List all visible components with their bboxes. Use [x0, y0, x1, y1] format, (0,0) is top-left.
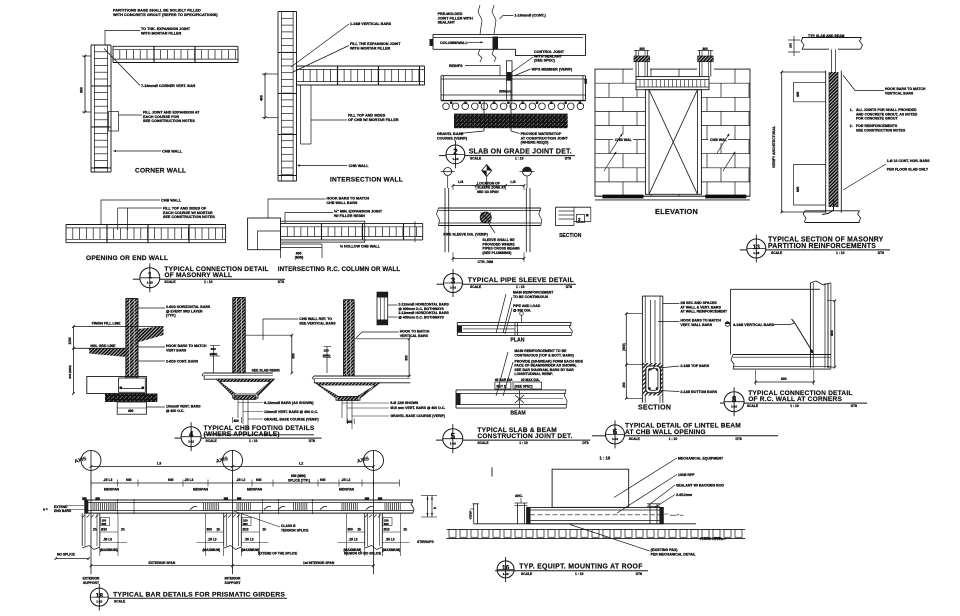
svg-text:1 : 10: 1 : 10	[575, 572, 584, 576]
svg-text:1-10: 1-10	[188, 439, 194, 443]
svg-text:Ø10 mm VERT. BARS @ 400 O.C.: Ø10 mm VERT. BARS @ 400 O.C.	[390, 406, 445, 410]
svg-text:FLOOR LEVEL: FLOOR LEVEL	[700, 537, 723, 541]
svg-text:600: 600	[405, 355, 409, 361]
girders: second dim row span1	[91, 482, 400, 484]
svg-text:2: 2	[453, 148, 458, 157]
girders: right end break and h dim	[411, 500, 414, 513]
girders: left end cap	[84, 500, 88, 513]
svg-text:MECHANICAL EQUIPMENT: MECHANICAL EQUIPMENT	[678, 456, 724, 460]
pipe sleeve: top symbols	[447, 176, 449, 188]
svg-text:VERT. WALL BARS: VERT. WALL BARS	[680, 323, 712, 327]
slab on grade: joint hatch in band	[493, 37, 499, 50]
svg-text:DT8: DT8	[566, 285, 572, 289]
svg-text:2-12Ø BOTTOM BARS: 2-12Ø BOTTOM BARS	[680, 390, 717, 394]
svg-text:1-10: 1-10	[450, 441, 456, 445]
footing 1: footing block	[87, 377, 147, 394]
partition section: title	[747, 239, 766, 258]
svg-text:VERT BARS: VERT BARS	[166, 348, 187, 352]
svg-text:1-10: 1-10	[452, 157, 458, 161]
intersection wall: left dimension	[264, 74, 266, 118]
svg-text:SUPPORT: SUPPORT	[83, 581, 99, 585]
svg-text:CHB WALL BARS: CHB WALL BARS	[327, 201, 358, 205]
slab&beam: small flag	[521, 315, 523, 322]
svg-text:150: 150	[789, 43, 793, 48]
svg-text:1-10: 1-10	[753, 251, 759, 255]
svg-text:KEY D.: KEY D.	[497, 385, 508, 389]
svg-text:600: 600	[207, 528, 213, 532]
svg-text:DT8: DT8	[278, 280, 284, 284]
svg-text:DT8: DT8	[565, 157, 571, 161]
elevation: chb wall annotation right pier	[708, 135, 728, 144]
footing 3: leaders below	[341, 401, 343, 419]
svg-text:OF CHB W/ MORTAR FILLER: OF CHB W/ MORTAR FILLER	[348, 118, 399, 122]
svg-text:DT8: DT8	[735, 437, 741, 441]
svg-text:VERTICAL BARS: VERTICAL BARS	[400, 334, 429, 338]
svg-text:400: 400	[260, 95, 264, 101]
svg-text:4: 4	[189, 430, 194, 439]
girders: support dim clusters	[99, 516, 101, 556]
slab on grade: title	[446, 145, 465, 164]
svg-text:6: 6	[613, 428, 618, 437]
svg-text:600: 600	[384, 522, 389, 526]
lintel section: left dim	[625, 314, 627, 399]
svg-text:1st INTERIOR SPAN: 1st INTERIOR SPAN	[303, 561, 335, 565]
svg-text:SCALE: SCALE	[114, 600, 126, 604]
rc corner: right dim	[834, 301, 836, 367]
footing 1: left dim line	[72, 327, 74, 394]
svg-text:L3: L3	[157, 462, 161, 466]
svg-text:1 : 10: 1 : 10	[600, 456, 611, 461]
lintel section: stirrup zone	[643, 363, 662, 396]
svg-text:VERTICAL BARS: VERTICAL BARS	[885, 91, 914, 95]
svg-text:3: 3	[451, 276, 456, 285]
svg-text:1 : 10: 1 : 10	[519, 441, 528, 445]
footing 3: right dim	[408, 339, 410, 376]
svg-text:(MAXIMUM): (MAXIMUM)	[383, 548, 401, 552]
svg-text:GRAVEL BASE COURSE (VERIF): GRAVEL BASE COURSE (VERIF)	[264, 418, 319, 422]
slab on grade: column/wall band	[433, 33, 586, 35]
svg-text:SPLICE (TYP.): SPLICE (TYP.)	[288, 479, 310, 483]
svg-text:MIDSPAN: MIDSPAN	[104, 488, 120, 492]
svg-text:@ 400mm O.C. BOTHWAYS: @ 400mm O.C. BOTHWAYS	[398, 315, 444, 319]
svg-text:.25 L2: .25 L2	[341, 478, 351, 482]
corner wall: dimension line left	[84, 56, 86, 112]
svg-text:SEALANT W/ BACKING ROD: SEALANT W/ BACKING ROD	[676, 484, 724, 488]
svg-text:4-16Ø VERTICAL BARS: 4-16Ø VERTICAL BARS	[733, 323, 775, 327]
svg-text:1 : 10: 1 : 10	[249, 439, 258, 443]
svg-text:2h: 2h	[404, 528, 408, 532]
svg-text:SCALE: SCALE	[164, 280, 176, 284]
footing 3: left min dim	[326, 347, 328, 373]
svg-text:OPENING OR END WALL: OPENING OR END WALL	[86, 255, 168, 262]
svg-text:PARTITION REINFORCEMENTS: PARTITION REINFORCEMENTS	[768, 243, 876, 250]
svg-text:(600): (600)	[622, 343, 626, 350]
detail 4 title: typical chb footing details	[181, 427, 201, 447]
svg-text:600: 600	[348, 528, 354, 532]
svg-text:SECTION: SECTION	[559, 233, 582, 239]
slab&beam: plan bar	[457, 321, 571, 323]
svg-text:SCALE: SCALE	[747, 404, 759, 408]
svg-text:CHB WALL: CHB WALL	[349, 164, 370, 168]
svg-text:600: 600	[292, 353, 296, 359]
svg-text:200: 200	[622, 382, 626, 388]
svg-text:SCALE: SCALE	[629, 437, 641, 441]
svg-text:2h: 2h	[263, 528, 267, 532]
equipt mount: roof slab and ribs	[474, 523, 696, 525]
svg-text:CTR. DIM: CTR. DIM	[478, 260, 494, 264]
svg-text:(MIN): (MIN)	[323, 354, 331, 358]
svg-text:CORNER WALL: CORNER WALL	[135, 168, 186, 175]
svg-text:REINFS: REINFS	[449, 64, 463, 68]
footing 2: CHB wall hatched	[233, 298, 246, 374]
svg-text:2.: 2.	[850, 124, 853, 128]
girders: bar hook ticks	[190, 507, 194, 510]
detail 5 title: typical slab & beam construction joint	[443, 429, 463, 449]
svg-text:VERIFY ARCHITECTURAL: VERIFY ARCHITECTURAL	[772, 126, 776, 168]
svg-text:a =: a =	[43, 508, 48, 512]
svg-text:Ø10: Ø10	[384, 528, 390, 532]
svg-text:600: 600	[168, 478, 174, 482]
rc corner: interior square outline	[731, 288, 821, 290]
partition section: bottom slab band	[805, 210, 860, 212]
svg-text:800: 800	[796, 186, 800, 192]
corner wall: horizontal CHB wall ladder	[113, 45, 238, 47]
svg-text:1-10: 1-10	[450, 286, 456, 290]
svg-text:NO SPLICE: NO SPLICE	[57, 553, 76, 557]
pipe sleeve: beam band	[439, 207, 541, 209]
svg-text:PIPE SLEEVE DIA. (VERIF): PIPE SLEEVE DIA. (VERIF)	[443, 233, 487, 237]
svg-text:MID 1/3 SPAN: MID 1/3 SPAN	[477, 190, 499, 194]
svg-text:2-Ø10 CONT. BARS: 2-Ø10 CONT. BARS	[166, 360, 199, 364]
pipe sleeve: leader and note block	[488, 222, 495, 233]
svg-text:1200: 1200	[68, 337, 72, 344]
svg-text:L/3: L/3	[510, 180, 515, 184]
svg-text:13: 13	[753, 244, 761, 251]
svg-text:600: 600	[320, 478, 326, 482]
svg-text:Ø10: Ø10	[101, 528, 107, 532]
intersecting rc column: wall end break	[414, 221, 416, 242]
svg-text:SEE CONSTRUCTION NOTES: SEE CONSTRUCTION NOTES	[856, 128, 906, 132]
slab on grade: compacted fill crosshatch	[454, 114, 568, 129]
svg-text:SECTION: SECTION	[638, 405, 671, 412]
svg-text:1 : 10: 1 : 10	[515, 157, 524, 161]
svg-text:(SEE PLUMBING): (SEE PLUMBING)	[482, 251, 511, 255]
svg-text:1 : 10: 1 : 10	[516, 285, 525, 289]
equipt mount: left wall bracket	[473, 503, 479, 505]
svg-text:COURSE (VERIF): COURSE (VERIF)	[437, 136, 468, 140]
girders: axis circles and lines	[81, 450, 101, 470]
svg-text:TO BE CONTINUOUS: TO BE CONTINUOUS	[513, 295, 549, 299]
detail 6 title: lintel beam at chb wall opening	[606, 425, 625, 444]
footing 2: trapezoid footing	[216, 379, 274, 398]
svg-text:SCALE: SCALE	[771, 251, 783, 255]
svg-text:COLUMN/WALL: COLUMN/WALL	[440, 41, 468, 45]
svg-text:NGL GRD LINE: NGL GRD LINE	[90, 344, 116, 348]
intersection wall: horizontal CHB ladder	[297, 65, 425, 67]
intersection wall: vertical CHB ladder	[277, 12, 279, 182]
svg-text:1 : 10: 1 : 10	[790, 404, 799, 408]
svg-text:400: 400	[347, 420, 353, 424]
svg-text:600 (MIN): 600 (MIN)	[291, 474, 306, 478]
svg-text:MIDSPAN: MIDSPAN	[193, 488, 209, 492]
svg-text:(WHERE REQD): (WHERE REQD)	[521, 141, 550, 145]
svg-text:8: 8	[732, 395, 737, 404]
partition section: top left small dim	[788, 39, 800, 41]
svg-text:2h: 2h	[358, 528, 362, 532]
intersecting rc column: column rectangle	[248, 218, 281, 250]
svg-text:800 (MIN): 800 (MIN)	[68, 365, 72, 378]
svg-text:WITH CONCRETE GROUT (REFER TO: WITH CONCRETE GROUT (REFER TO SPECIFICAT…	[113, 12, 218, 17]
svg-text:PLAN: PLAN	[510, 338, 524, 344]
corner wall: vertical CHB wall ladder	[90, 45, 92, 172]
svg-text:1-10: 1-10	[147, 280, 153, 284]
svg-text:Ø10: Ø10	[243, 528, 249, 532]
partition section: wall neck above	[831, 49, 833, 72]
svg-text:20 MAX DIA.: 20 MAX DIA.	[521, 378, 540, 382]
equipt mount: pad band	[527, 507, 664, 523]
svg-text:GRAVEL BASE COURSE (VERIF): GRAVEL BASE COURSE (VERIF)	[390, 414, 445, 418]
lintel section: wall outline	[641, 296, 643, 403]
svg-text:OF R.C. WALL AT CORNERS: OF R.C. WALL AT CORNERS	[748, 396, 842, 403]
opening/end wall: horizontal CHB ladder	[66, 224, 226, 226]
svg-text:1 : 10: 1 : 10	[836, 251, 845, 255]
svg-text:(SEE SPEC): (SEE SPEC)	[515, 385, 533, 389]
svg-text:@ 400 O.C.: @ 400 O.C.	[166, 409, 184, 413]
svg-text:300: 300	[211, 347, 216, 351]
svg-text:h: h	[433, 507, 437, 509]
svg-text:1.: 1.	[850, 108, 853, 112]
svg-text:CONSTRUCTION JOINT DET.: CONSTRUCTION JOINT DET.	[477, 433, 572, 440]
slab on grade: gravel circles	[443, 103, 450, 110]
svg-text:.25 L3: .25 L3	[208, 538, 217, 542]
svg-text:150: 150	[584, 78, 588, 84]
rc corner: vertical wall (right)	[809, 283, 811, 368]
svg-text:800: 800	[80, 87, 84, 93]
elevation: left post	[635, 50, 637, 76]
elevation: opening frame and X brace	[645, 90, 701, 195]
footing 1: pedestal below	[117, 402, 146, 414]
svg-text:7-16mmØ CORNER VERT. BAR: 7-16mmØ CORNER VERT. BAR	[141, 84, 196, 88]
svg-text:CHB WALL: CHB WALL	[161, 198, 182, 202]
girders: top span dim line	[91, 466, 374, 468]
partition section: upper bracket dim	[793, 81, 825, 83]
girders: stirrup hatch bands	[92, 503, 94, 511]
svg-text:ELEVATION: ELEVATION	[655, 207, 698, 216]
svg-text:600: 600	[126, 478, 132, 482]
footing 2: dim 400 below	[232, 417, 234, 423]
girders: sparse stirrups and crossing lines	[117, 499, 119, 514]
svg-text:FOR CONCRETE GROUT: FOR CONCRETE GROUT	[856, 117, 898, 121]
elevation: right post	[699, 50, 701, 76]
svg-text:WITH MORTAR FILLER: WITH MORTAR FILLER	[350, 46, 391, 50]
equipt mount: equipment box	[552, 469, 629, 507]
elevation: base lines and footing strips	[595, 195, 750, 197]
elevation: opening white-out	[645, 90, 701, 195]
svg-text:½ HOLLOW CHB WALL: ½ HOLLOW CHB WALL	[340, 244, 381, 248]
svg-text:100Ø RPP: 100Ø RPP	[678, 473, 695, 477]
svg-text:.50 L3: .50 L3	[103, 538, 112, 542]
footing 1: CHB wall hatched	[126, 299, 138, 378]
svg-text:STIRRUPS: STIRRUPS	[417, 540, 434, 544]
partition section: lower bracket dim	[793, 164, 825, 166]
svg-text:WPG MEMBER (VERIF): WPG MEMBER (VERIF)	[532, 67, 573, 71]
svg-text:L/4: L/4	[458, 180, 463, 184]
svg-text:1-Ø 10 CONT. HOR. BARS: 1-Ø 10 CONT. HOR. BARS	[887, 159, 930, 163]
partition section: bottom hook	[822, 200, 834, 215]
svg-text:.25 L3: .25 L3	[103, 478, 113, 482]
equipt mount: ground line	[446, 537, 745, 539]
svg-text:2-Ø12mm: 2-Ø12mm	[676, 493, 692, 497]
slab on grade: joint break lines	[478, 5, 482, 34]
svg-text:.50 L3: .50 L3	[386, 538, 395, 542]
svg-text:SCALE: SCALE	[477, 441, 489, 445]
svg-text:TENSION SPLICE: TENSION SPLICE	[281, 528, 309, 532]
footing 1: left fill hatch	[89, 349, 126, 358]
svg-text:SEE CONSTRUCTION NOTES: SEE CONSTRUCTION NOTES	[143, 119, 195, 123]
girders: girder band	[84, 499, 413, 501]
svg-text:.25 L2: .25 L2	[236, 478, 246, 482]
svg-text:12mmØ VERT. BARS @ 400 O.C.: 12mmØ VERT. BARS @ 400 O.C.	[264, 410, 318, 414]
svg-text:8-12mmØ BARS (AS SHOWN): 8-12mmØ BARS (AS SHOWN)	[264, 401, 313, 405]
svg-text:OF MASONRY WALL: OF MASONRY WALL	[164, 272, 232, 279]
svg-text:(MIN): (MIN)	[210, 352, 218, 356]
footing 2: left min dim	[213, 345, 215, 373]
equipt mount: anchor post left	[517, 503, 519, 524]
svg-text:1-16Ø VERTICAL BARS: 1-16Ø VERTICAL BARS	[350, 22, 392, 26]
svg-text:MIDSPAN: MIDSPAN	[247, 488, 263, 492]
elevation: post whiteouts	[633, 50, 650, 76]
intersecting rc column: bottom band	[281, 243, 323, 245]
svg-text:PER MECHANICAL DETAIL: PER MECHANICAL DETAIL	[651, 552, 697, 556]
svg-text:SEE CONSTRUCTION NOTES: SEE CONSTRUCTION NOTES	[163, 215, 215, 219]
pipe sleeve: bottom dim	[453, 257, 524, 259]
svg-text:1-16mmØ (CONT.): 1-16mmØ (CONT.)	[514, 14, 546, 18]
svg-text:SEALANT: SEALANT	[438, 21, 456, 25]
svg-text:TYPICAL BAR DETAILS FOR PRISMA: TYPICAL BAR DETAILS FOR PRISMATIC GIRDER…	[113, 591, 285, 598]
svg-text:1-13: 1-13	[96, 600, 102, 604]
svg-text:2h: 2h	[121, 528, 125, 532]
svg-text:W/ FILLER RESIN: W/ FILLER RESIN	[334, 214, 365, 218]
svg-text:600: 600	[102, 522, 107, 526]
equipt mount: right post	[649, 504, 651, 524]
svg-text:(SEE SPEC): (SEE SPEC)	[534, 59, 556, 63]
corner wall: bracket to blocks	[109, 112, 119, 132]
svg-text:800: 800	[830, 330, 834, 336]
slab&beam: beam bar	[456, 389, 566, 391]
svg-text:400: 400	[128, 409, 134, 413]
svg-text:SCALE: SCALE	[521, 572, 533, 576]
svg-text:.25 L3: .25 L3	[349, 538, 358, 542]
detail 8 title: rc wall at corners	[724, 392, 744, 412]
footing 3: trapezoid footing	[315, 383, 379, 400]
svg-text:(MAXIMUM): (MAXIMUM)	[203, 548, 221, 552]
svg-text:(TYP.): (TYP.)	[166, 314, 176, 318]
svg-text:DT8: DT8	[636, 572, 642, 576]
svg-text:FINISH FILL LINE: FINISH FILL LINE	[92, 321, 121, 325]
detail 1 title: typical connection detail of masonry wall	[140, 268, 160, 288]
footing 3: plan piece top right	[377, 292, 388, 298]
detail 16 title: typ equipt mounting at roof	[497, 561, 514, 578]
svg-text:1-10: 1-10	[503, 572, 509, 576]
rc corner: horizontal wall (bottom)	[733, 354, 831, 356]
footing 1: right fill hatch wedge	[138, 326, 164, 342]
opening/end wall: bracket leaders	[117, 208, 119, 230]
svg-text:TYPICAL PIPE SLEEVE DETAIL: TYPICAL PIPE SLEEVE DETAIL	[468, 277, 574, 284]
footing 2: slab band	[204, 372, 273, 374]
svg-text:1-10: 1-10	[612, 437, 618, 441]
partition section: wall with reinforcement hatch	[825, 71, 827, 213]
svg-text:800: 800	[781, 377, 787, 381]
elevation: brick wall field	[595, 82, 750, 84]
footing 3: dim 400 below	[347, 419, 349, 425]
detail 18 title: typical bar details for prismatic girders	[90, 588, 108, 606]
svg-text:SEE VERTICAL BARS: SEE VERTICAL BARS	[299, 321, 336, 325]
svg-text:BEAM: BEAM	[510, 411, 525, 417]
rc corner: bottom dim	[756, 381, 814, 383]
svg-text:400: 400	[234, 419, 240, 423]
svg-text:SCALE: SCALE	[206, 439, 218, 443]
svg-text:L2: L2	[299, 462, 303, 466]
svg-text:DT8: DT8	[878, 251, 884, 255]
svg-text:SUPPORT: SUPPORT	[225, 581, 241, 585]
svg-text:600: 600	[243, 522, 248, 526]
svg-text:.50 L3: .50 L3	[245, 538, 254, 542]
svg-text:18: 18	[96, 592, 104, 599]
elevation: chb wall annotation left pier	[613, 135, 633, 144]
svg-text:DT8: DT8	[582, 441, 588, 445]
svg-text:400: 400	[796, 91, 800, 97]
svg-text:INTERSECTING R.C. COLUMN OR WA: INTERSECTING R.C. COLUMN OR WALL	[278, 266, 401, 273]
pipe sleeve: wall verticals	[444, 188, 446, 252]
svg-text:1-10: 1-10	[731, 404, 737, 408]
elevation: lintel white-out	[636, 77, 709, 90]
svg-text:2-16Ø TOP BARS: 2-16Ø TOP BARS	[680, 364, 709, 368]
footing 3: CHB wall hatched	[344, 300, 355, 376]
pipe sleeve: top dimension line	[453, 185, 524, 187]
svg-text:DT8: DT8	[309, 439, 315, 443]
girders: columns below	[81, 513, 83, 546]
svg-text:VERIF: VERIF	[469, 510, 473, 519]
svg-text:5: 5	[451, 432, 456, 441]
svg-text:MIDSPAN: MIDSPAN	[339, 488, 355, 492]
svg-text:2h: 2h	[217, 528, 221, 532]
partition section: left dim line	[781, 72, 783, 212]
footing 2: leader lines below	[237, 400, 239, 419]
svg-text:AT WALL REINFORCEMENT: AT WALL REINFORCEMENT	[680, 310, 728, 314]
svg-text:SCALE: SCALE	[470, 157, 482, 161]
footing 2: right dim	[291, 335, 293, 373]
slab on grade: control joint element	[506, 61, 512, 81]
svg-text:EXTEND OF THE SPLICE: EXTEND OF THE SPLICE	[258, 552, 298, 556]
svg-text:1 : 10: 1 : 10	[204, 280, 213, 284]
footing 1: soil hatch under footing	[105, 394, 157, 403]
svg-text:AT CHB WALL OPENING: AT CHB WALL OPENING	[625, 429, 706, 436]
svg-text:1: 1	[148, 271, 153, 280]
intersecting rc column: horizontal CHB ladder	[281, 222, 423, 224]
slab on grade: slab outline	[441, 75, 586, 77]
svg-text:ANC.: ANC.	[515, 494, 523, 498]
svg-text:EXTERIOR SPAN: EXTERIOR SPAN	[149, 561, 176, 565]
svg-text:DT8: DT8	[851, 404, 857, 408]
corner wall: leader to joint	[105, 31, 140, 46]
svg-text:PER FLOOR SLAB ONLY: PER FLOOR SLAB ONLY	[887, 168, 929, 172]
svg-text:REGION OF NO SPLICE: REGION OF NO SPLICE	[344, 552, 382, 556]
svg-text:8-Ø 12Ø SHOWN: 8-Ø 12Ø SHOWN	[390, 401, 418, 405]
elevation: lintel beam band	[636, 77, 709, 90]
pipe sleeve: section mini drawing	[556, 206, 591, 208]
svg-text:SLAB ON GRADE JOINT DET.: SLAB ON GRADE JOINT DET.	[469, 149, 572, 156]
svg-text:200: 200	[324, 349, 329, 353]
